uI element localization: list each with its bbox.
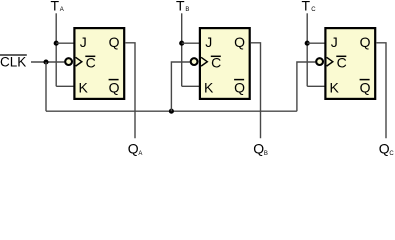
svg-text:T: T bbox=[51, 0, 60, 13]
wire Q output FF1 to QA drop bbox=[125, 43, 135, 138]
svg-text:Q: Q bbox=[253, 140, 264, 156]
clock triangle U1 bbox=[76, 57, 82, 66]
svg-text:T: T bbox=[302, 0, 311, 13]
pin label C-bar U3 bbox=[336, 55, 346, 71]
wire TC to J input FF3 bbox=[307, 42, 325, 44]
junction TC to J bbox=[305, 41, 310, 46]
svg-text:Q: Q bbox=[234, 80, 245, 96]
pin label C-bar U2 bbox=[211, 55, 221, 71]
svg-text:C: C bbox=[389, 151, 394, 157]
svg-text:Q: Q bbox=[360, 80, 371, 96]
pin label C-bar U1 bbox=[85, 55, 95, 71]
wire CLK bottom rail bbox=[46, 110, 297, 112]
wire TB to J input FF2 bbox=[182, 42, 200, 44]
pin label Q-bar U3 bbox=[360, 80, 371, 96]
wire Q output FF2 to QB drop bbox=[251, 43, 261, 138]
clock triangle U2 bbox=[201, 57, 207, 66]
svg-text:C: C bbox=[311, 7, 316, 13]
wire TA to J input FF1 bbox=[56, 42, 74, 44]
svg-text:K: K bbox=[204, 80, 214, 96]
svg-text:T: T bbox=[176, 0, 185, 13]
flip-flop U3 box bbox=[325, 28, 375, 99]
label TC input bbox=[302, 0, 317, 13]
svg-text:K: K bbox=[79, 80, 89, 96]
wire TA to K input FF1 bbox=[56, 85, 74, 87]
wire TB vertical bbox=[181, 13, 183, 86]
svg-text:Q: Q bbox=[109, 80, 120, 96]
svg-text:B: B bbox=[185, 7, 189, 13]
svg-text:J: J bbox=[80, 34, 87, 50]
label QB output bbox=[253, 140, 268, 157]
clock triangle U3 bbox=[327, 57, 333, 66]
svg-text:B: B bbox=[264, 151, 268, 157]
svg-text:A: A bbox=[60, 7, 64, 13]
pin label Q-bar U1 bbox=[109, 80, 120, 96]
junction TA to J bbox=[54, 41, 59, 46]
wire TC vertical bbox=[306, 13, 308, 86]
svg-text:K: K bbox=[330, 80, 340, 96]
clock bubble U2 bbox=[191, 58, 198, 65]
wire CLK riser to FF3 clock bbox=[297, 62, 316, 111]
svg-text:CLK: CLK bbox=[0, 55, 26, 70]
wire CLK riser to FF2 clock bbox=[171, 62, 190, 111]
clock bubble U3 bbox=[316, 58, 323, 65]
junction CLK rail to FF2 bbox=[169, 109, 174, 114]
pin label Q-bar U2 bbox=[234, 80, 245, 96]
wire TA vertical bbox=[55, 13, 57, 86]
wire CLK input to FF1 clock bbox=[31, 61, 64, 63]
svg-text:Q: Q bbox=[360, 34, 371, 50]
svg-text:A: A bbox=[138, 151, 142, 157]
wire Q output FF3 to QC drop bbox=[376, 43, 386, 138]
label QC output bbox=[379, 140, 395, 157]
flip-flop U2 box bbox=[200, 28, 250, 99]
svg-text:Q: Q bbox=[109, 34, 120, 50]
wire TC to K input FF3 bbox=[307, 85, 325, 87]
svg-text:Q: Q bbox=[128, 140, 139, 156]
svg-text:Q: Q bbox=[379, 140, 390, 156]
label CLK (active-low clock input) bbox=[0, 55, 27, 70]
svg-text:J: J bbox=[205, 34, 212, 50]
flip-flop U1 box bbox=[74, 28, 124, 99]
label TB input bbox=[176, 0, 189, 13]
wire CLK drop to bottom rail bbox=[45, 62, 47, 111]
svg-text:Q: Q bbox=[234, 34, 245, 50]
svg-text:J: J bbox=[331, 34, 338, 50]
wire TB to K input FF2 bbox=[182, 85, 200, 87]
label QA output bbox=[128, 140, 143, 157]
junction CLK branch bbox=[43, 59, 48, 64]
clock bubble U1 bbox=[65, 58, 72, 65]
label TA input bbox=[51, 0, 64, 13]
junction TB to J bbox=[179, 41, 184, 46]
